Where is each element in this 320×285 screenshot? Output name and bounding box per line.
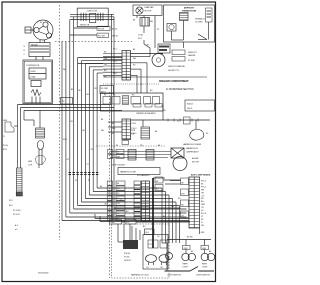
svg-text:P6: P6: [206, 133, 208, 135]
svg-text:YL: YL: [201, 222, 203, 224]
svg-text:IC DISPENSER SECTION: IC DISPENSER SECTION: [166, 89, 194, 91]
svg-text:OVER: OVER: [30, 71, 36, 73]
svg-text:LIGHT SWITCH: LIGHT SWITCH: [196, 275, 210, 277]
svg-text:P4: P4: [104, 95, 106, 97]
svg-text:P10-1: P10-1: [132, 123, 137, 125]
svg-text:FZ CMP: FZ CMP: [101, 88, 109, 90]
svg-text:M: M: [40, 22, 42, 24]
svg-text:AUX IC DISP BOARD: AUX IC DISP BOARD: [191, 174, 211, 177]
svg-text:P6: P6: [132, 95, 134, 97]
svg-text:P1: P1: [75, 180, 77, 182]
svg-text:BLACK: BLACK: [187, 103, 194, 106]
svg-text:P11 HARNESS: P11 HARNESS: [137, 174, 150, 177]
svg-text:P2: P2: [116, 145, 118, 147]
svg-text:FREEZER COMPARTMENT: FREEZER COMPARTMENT: [159, 80, 189, 83]
svg-text:P13-8: P13-8: [201, 213, 206, 215]
svg-text:HARNESS-CP 2003: HARNESS-CP 2003: [131, 274, 149, 277]
svg-text:COMPRESSOR: COMPRESSOR: [26, 65, 40, 67]
svg-text:JUNCTION: JUNCTION: [87, 11, 98, 13]
svg-text:REFR: REFR: [183, 264, 189, 266]
svg-text:P2-6 GY: P2-6 GY: [13, 214, 21, 216]
svg-text:AUGER: AUGER: [192, 157, 199, 160]
svg-text:LT BU: LT BU: [138, 35, 144, 37]
svg-text:P7-4: P7-4: [113, 61, 117, 63]
svg-text:DETECT: DETECT: [124, 260, 132, 262]
svg-text:P1-4 WH: P1-4 WH: [13, 210, 21, 212]
svg-text:YL: YL: [117, 208, 119, 210]
svg-text:HARNESS-FZ JMP: HARNESS-FZ JMP: [120, 171, 137, 174]
svg-text:P13-2: P13-2: [201, 186, 206, 188]
svg-text:P7-6: P7-6: [113, 73, 117, 75]
svg-text:CLOSED: CLOSED: [195, 22, 203, 24]
svg-text:FLOW: FLOW: [124, 257, 130, 259]
svg-text:LIGHT: LIGHT: [183, 267, 189, 269]
svg-text:P7-2: P7-2: [113, 49, 117, 51]
svg-text:DEFROST: DEFROST: [188, 52, 198, 54]
svg-text:PLUG: PLUG: [3, 145, 9, 147]
svg-text:P3-1: P3-1: [9, 200, 13, 202]
svg-text:THERMOSTAT: THERMOSTAT: [182, 10, 197, 13]
svg-text:YL: YL: [3, 136, 5, 138]
svg-text:REFR: REFR: [202, 264, 208, 266]
svg-text:LOAD: LOAD: [30, 76, 36, 79]
svg-text:HARNESS-CP: HARNESS-CP: [186, 147, 199, 150]
svg-text:WTR VLV ASSY: WTR VLV ASSY: [112, 164, 126, 167]
svg-text:LIGHT: LIGHT: [202, 267, 208, 269]
svg-text:P9-2: P9-2: [138, 38, 142, 40]
svg-text:GRN: GRN: [3, 120, 8, 122]
svg-text:BK RD: BK RD: [187, 237, 193, 239]
svg-text:THERMO-FUSE ASSY: THERMO-FUSE ASSY: [136, 112, 157, 115]
svg-text:MOTOR: MOTOR: [145, 11, 152, 13]
svg-text:WTR: WTR: [131, 130, 136, 132]
svg-text:BK-18: BK-18: [112, 29, 117, 31]
svg-text:HARNESS-FZ WH/BK: HARNESS-FZ WH/BK: [183, 143, 202, 146]
svg-text:P7-3 BK: P7-3 BK: [188, 60, 196, 62]
svg-text:NORMALLY: NORMALLY: [195, 18, 206, 21]
svg-text:PULSE: PULSE: [124, 253, 131, 255]
svg-text:P9: P9: [157, 29, 159, 31]
svg-text:P13: P13: [149, 244, 152, 246]
svg-text:P8-2: P8-2: [63, 139, 67, 141]
svg-text:WH BK OR: WH BK OR: [80, 25, 90, 27]
svg-text:YL: YL: [177, 121, 179, 123]
svg-text:RF: RF: [161, 267, 163, 269]
svg-text:HI-LIMIT P7-1: HI-LIMIT P7-1: [168, 70, 179, 72]
svg-text:GRN: GRN: [28, 161, 33, 163]
svg-text:DEFROST: DEFROST: [184, 8, 195, 10]
svg-text:MOTOR: MOTOR: [192, 162, 199, 164]
svg-text:RELAY: RELAY: [31, 43, 38, 46]
svg-text:P11 BK: P11 BK: [98, 29, 105, 31]
svg-text:A-2: A-2: [15, 224, 18, 227]
svg-text:a b: a b: [15, 229, 18, 231]
svg-text:JUMPER ASSY: JUMPER ASSY: [186, 151, 200, 154]
svg-text:W10153482: W10153482: [38, 273, 48, 275]
svg-text:P12 WH: P12 WH: [98, 35, 105, 37]
svg-text:HEATER: HEATER: [188, 54, 196, 57]
svg-text:P5: P5: [113, 95, 115, 97]
svg-text:P8: P8: [62, 101, 64, 103]
svg-text:GN-YL: GN-YL: [187, 108, 193, 110]
svg-text:WH-18: WH-18: [112, 35, 118, 37]
svg-text:GND: GND: [201, 204, 206, 206]
svg-text:P2: P2: [88, 180, 90, 182]
svg-text:GRN: GRN: [110, 222, 115, 224]
svg-text:DEFROST BIMETAL: DEFROST BIMETAL: [168, 65, 185, 68]
svg-text:EVAP FAN: EVAP FAN: [145, 6, 154, 9]
svg-text:P13-1: P13-1: [201, 181, 206, 183]
